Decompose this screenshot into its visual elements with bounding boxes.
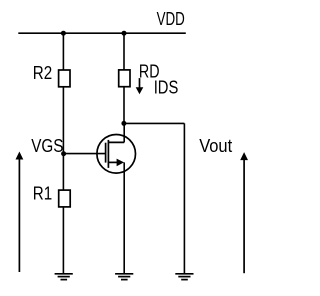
wire Vout branch down to ground bbox=[183, 123, 185, 273]
wire R1 bottom to ground bbox=[62, 207, 64, 274]
voltage arrow (input side, left, up) bbox=[16, 152, 24, 273]
node VGS (gate tap) bbox=[61, 151, 66, 156]
wire VDD rail (top horizontal) bbox=[18, 32, 186, 34]
svg-text:R1: R1 bbox=[33, 182, 52, 203]
current arrow IDS (down) bbox=[136, 78, 144, 94]
resistor R2 bbox=[59, 70, 70, 87]
resistor R1 bbox=[59, 190, 70, 207]
svg-text:IDS: IDS bbox=[154, 76, 179, 97]
svg-text:R2: R2 bbox=[33, 62, 52, 83]
svg-text:VDD: VDD bbox=[157, 8, 185, 29]
wire RD bottom to drain node bbox=[123, 87, 125, 124]
svg-text:VGS: VGS bbox=[31, 135, 63, 156]
ground (middle, source) bbox=[115, 274, 133, 280]
wire VDD rail down to RD bbox=[123, 33, 125, 70]
wire R2 bottom through VGS node to R1 bbox=[62, 87, 64, 190]
voltage arrow Vout (right, up) bbox=[240, 152, 248, 273]
wire drain node into transistor drain bbox=[123, 123, 125, 142]
transistor M1 (NMOS, enhancement) bbox=[97, 135, 136, 174]
ground (left, below R1) bbox=[55, 274, 73, 280]
wire source to ground bbox=[123, 162, 125, 273]
wire VDD rail down to R2 bbox=[62, 33, 64, 70]
node: VDD / RD junction bbox=[122, 31, 127, 36]
ground (right, Vout branch) bbox=[175, 274, 193, 280]
svg-text:Vout: Vout bbox=[199, 135, 232, 156]
node: VDD / R2 junction bbox=[61, 31, 66, 36]
resistor RD bbox=[119, 70, 130, 87]
node: drain / Vout junction bbox=[121, 121, 126, 126]
wire drain node to Vout branch (horizontal) bbox=[124, 122, 184, 124]
wire gate (VGS node to gate bar) bbox=[64, 153, 106, 155]
